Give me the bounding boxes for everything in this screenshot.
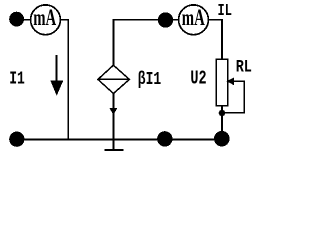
- current arrow I1 (downward): [50, 55, 63, 96]
- wire ammeter A2 to resistor top: [208, 20, 222, 60]
- bottom rail wire: [17, 138, 222, 140]
- current direction arrowhead on source branch: [110, 108, 118, 115]
- node dot output bottom: [157, 131, 172, 146]
- wiper arrow of potentiometer RL: [222, 77, 244, 112]
- node terminal dot bottom-left: [9, 132, 24, 147]
- svg-text:RL: RL: [236, 57, 252, 77]
- svg-text:mA: mA: [182, 6, 205, 31]
- ammeter A1 circle mA: [31, 5, 61, 35]
- controlled current source diamond: [98, 65, 129, 93]
- ground symbol: [104, 139, 123, 150]
- svg-text:U2: U2: [190, 67, 206, 89]
- node dot bottom-right: [214, 131, 230, 147]
- resistor RL rectangle: [216, 59, 227, 105]
- wire ammeter A1 to left branch corner: [60, 20, 68, 140]
- wire dot to ammeter A1: [17, 19, 31, 21]
- svg-text:βI1: βI1: [138, 69, 162, 90]
- svg-text:I1: I1: [9, 68, 25, 89]
- node terminal dot top-left: [9, 12, 24, 27]
- wire resistor bottom to rail: [221, 106, 223, 140]
- junction dot wiper: [219, 110, 226, 117]
- svg-text:mA: mA: [33, 6, 56, 31]
- wire top rail middle corner to right: [113, 20, 178, 66]
- wire diamond bottom to bottom rail: [112, 94, 114, 140]
- node dot output top: [158, 12, 173, 27]
- ammeter A2 circle mA: [179, 5, 209, 35]
- svg-text:IL: IL: [218, 2, 232, 20]
